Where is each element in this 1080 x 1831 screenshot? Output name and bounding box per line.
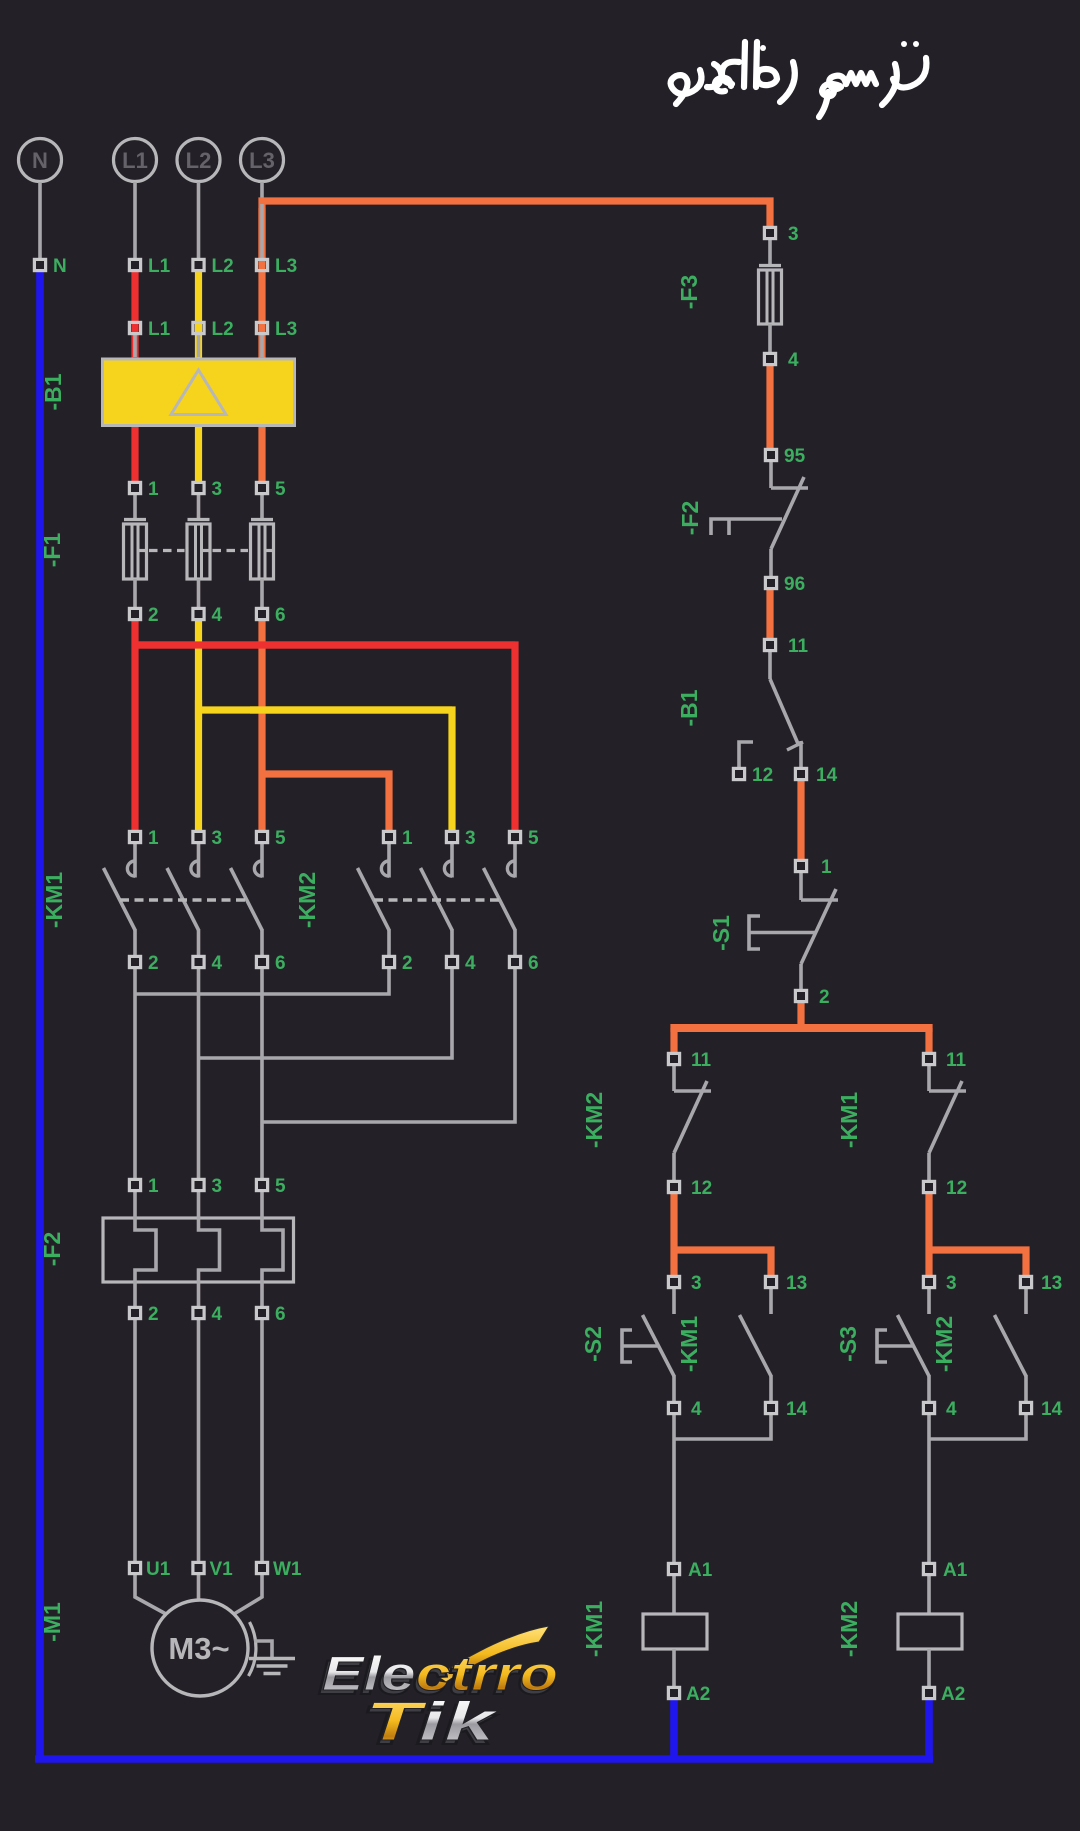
grey overlay on leads entering B1 — [133, 332, 137, 357]
svg-text:3: 3 — [691, 1273, 702, 1294]
fuse F1 pole at x=135 — [133, 495, 137, 519]
contactor KM2 main pole x=515 — [513, 843, 517, 878]
fuse F1 pole at x=198.5 — [197, 495, 201, 519]
svg-text:12: 12 — [752, 765, 773, 786]
auxiliary contact KM1 13-14 — [769, 1289, 773, 1314]
wire: L3 orange drop to B1 — [258, 208, 265, 359]
svg-text:-KM2: -KM2 — [294, 872, 320, 928]
grey overlay on L3 lead below circle — [260, 204, 264, 258]
wire: F2-4 to motor V1 — [197, 1320, 201, 1561]
svg-text:-KM1: -KM1 — [41, 872, 67, 928]
fuse F3 — [759, 264, 781, 267]
svg-text:6: 6 — [275, 953, 286, 974]
svg-text:A2: A2 — [686, 1684, 710, 1705]
svg-text:11: 11 — [788, 636, 809, 657]
breaker auxiliary contact B1 11-14 — [768, 652, 772, 679]
svg-text:5: 5 — [275, 1176, 286, 1197]
wire: orange phase F1-6 down to KM1 pole 5 — [258, 621, 265, 830]
lead from circle L1 — [133, 182, 137, 258]
svg-text:6: 6 — [275, 605, 286, 626]
svg-text:2: 2 — [148, 605, 159, 626]
wire: neutral blue bottom horizontal — [35, 1755, 933, 1763]
svg-text:Tik: Tik — [365, 1690, 499, 1752]
supply circle L3 — [241, 139, 284, 182]
terminal squares control side — [764, 227, 775, 238]
svg-text:4: 4 — [691, 1399, 702, 1420]
svg-text:12: 12 — [946, 1178, 967, 1199]
overload F2 heater element x=198.5 — [199, 1192, 220, 1306]
triangle inside B1 — [171, 370, 226, 415]
svg-text:5: 5 — [275, 828, 286, 849]
wire: orange B1-14 to S1-1 — [797, 781, 804, 859]
svg-text:-KM1: -KM1 — [676, 1316, 702, 1372]
wire: orange S1-2 to branch bus — [797, 1003, 804, 1028]
svg-text:12: 12 — [691, 1178, 712, 1199]
motor ground connection arc — [249, 1622, 256, 1676]
svg-text:-B1: -B1 — [40, 373, 66, 410]
svg-text:2: 2 — [402, 953, 413, 974]
svg-text:3: 3 — [212, 1176, 223, 1197]
svg-text:L2: L2 — [212, 319, 234, 340]
svg-text:13: 13 — [1041, 1273, 1062, 1294]
wire: S3-4 / KM2aux-14 join to coil A1 — [929, 1415, 1026, 1439]
svg-text:A1: A1 — [688, 1560, 713, 1581]
supply circle L1 — [114, 139, 157, 182]
wire: L1 red drop to B1 — [131, 272, 138, 359]
wire: F2-2 to motor U1 — [133, 1320, 137, 1561]
wire: KM1-2 / KM2-2 junction to F2-1 — [133, 969, 137, 1178]
S2 actuator — [622, 1330, 632, 1362]
interlock NC contact KM2 11-12 — [672, 1066, 676, 1091]
svg-text:3: 3 — [212, 479, 223, 500]
svg-text:-F3: -F3 — [676, 275, 702, 310]
svg-text:-KM1: -KM1 — [836, 1092, 862, 1148]
wire: orange bus drop right to KM1-11 — [925, 1028, 932, 1052]
svg-text:3: 3 — [788, 224, 799, 245]
stop pushbutton S1 NC 1-2 — [799, 873, 803, 900]
contactor KM1 main pole x=198.5 — [197, 843, 201, 878]
svg-text:1: 1 — [148, 828, 159, 849]
svg-text:-F2: -F2 — [39, 1232, 65, 1267]
wire: orange KM1-12 to S3/KM2aux split — [925, 1194, 932, 1275]
motor lead W1 — [234, 1575, 262, 1614]
motor lead V1 — [197, 1575, 201, 1600]
wire: red phase F1-2 down to KM1 pole 1 — [131, 621, 138, 830]
svg-text:14: 14 — [816, 765, 838, 786]
ground symbol — [249, 1657, 295, 1661]
contactor KM2 main pole x=452 — [450, 843, 454, 878]
svg-text:N: N — [32, 148, 48, 173]
svg-text:6: 6 — [275, 1304, 286, 1325]
overload F2 heater element x=135 — [135, 1192, 156, 1306]
title: persian text 'tarsim reza ahmadi' — [671, 42, 927, 117]
svg-text:A2: A2 — [941, 1684, 965, 1705]
lead from circle L3 — [260, 182, 264, 258]
svg-text:4: 4 — [212, 605, 223, 626]
wire: KM1-6 / KM2-6 junction to F2-5 — [260, 969, 264, 1178]
wire: KM1-4 / KM2-4 junction to F2-3 — [197, 969, 201, 1178]
contactor KM1 main pole x=135 — [133, 843, 137, 878]
wire: yellow branch to KM2 pole 3 — [199, 710, 453, 830]
svg-text:14: 14 — [1041, 1399, 1063, 1420]
svg-text:-S2: -S2 — [580, 1326, 606, 1362]
svg-text:11: 11 — [691, 1050, 712, 1071]
motor M1 circle — [152, 1600, 248, 1696]
svg-text:-KM2: -KM2 — [836, 1601, 862, 1657]
svg-text:W1: W1 — [273, 1559, 302, 1580]
start pushbutton S2 NO 3-4 — [672, 1289, 676, 1314]
svg-text:95: 95 — [784, 446, 806, 467]
thermal overload relay F2 box — [103, 1218, 294, 1282]
ground wire — [254, 1641, 272, 1657]
svg-text:L1: L1 — [122, 148, 148, 173]
svg-text:L1: L1 — [148, 256, 171, 277]
svg-text:M3~: M3~ — [168, 1631, 229, 1666]
wire: B1 outputs down to F1 — [131, 426, 138, 482]
svg-text:4: 4 — [212, 1304, 223, 1325]
contactor KM1 main pole x=262 — [260, 843, 264, 878]
svg-text:-KM1: -KM1 — [581, 1601, 607, 1657]
svg-text:-KM2: -KM2 — [581, 1092, 607, 1148]
svg-text:13: 13 — [786, 1273, 807, 1294]
svg-text:4: 4 — [465, 953, 476, 974]
svg-text:L1: L1 — [148, 319, 171, 340]
wire: L2 yellow drop to B1 — [195, 272, 202, 359]
wire: F2-6 to motor W1 — [260, 1320, 264, 1561]
terminal squares power side — [34, 259, 45, 270]
svg-text:6: 6 — [528, 953, 539, 974]
overload F2 heater element x=262 — [262, 1192, 283, 1306]
overload F2 trip actuator — [711, 519, 782, 535]
svg-text:-S1: -S1 — [708, 915, 734, 951]
svg-text:2: 2 — [819, 987, 830, 1008]
wire: blue from KM1 coil A2 down — [670, 1700, 678, 1759]
dashed gang link of F1 — [149, 549, 185, 552]
svg-text:4: 4 — [212, 953, 223, 974]
wire: orange F3-4 to F2-95 — [766, 366, 773, 448]
wire: orange control feed from L3 to F3 — [262, 201, 770, 265]
svg-text:1: 1 — [821, 857, 832, 878]
svg-text:3: 3 — [465, 828, 476, 849]
svg-text:4: 4 — [946, 1399, 957, 1420]
fuse F3 lead bottom — [768, 324, 772, 352]
svg-text:96: 96 — [784, 574, 805, 595]
dashed linkage KM1 — [120, 898, 246, 901]
svg-text:14: 14 — [786, 1399, 808, 1420]
svg-text:-B1: -B1 — [676, 689, 702, 726]
S1 actuator — [749, 916, 760, 949]
svg-text:L3: L3 — [275, 256, 297, 277]
dashed linkage KM2 — [374, 898, 500, 901]
lead from circle N — [38, 182, 42, 258]
wire: yellow phase F1-4 down to KM1 pole 3 — [195, 621, 202, 830]
svg-text:4: 4 — [788, 350, 799, 371]
auxiliary contact KM2 13-14 — [1024, 1289, 1028, 1314]
surge protection device B1 yellow box — [103, 359, 295, 426]
S3 actuator — [877, 1330, 887, 1362]
coil KM2 — [927, 1576, 931, 1614]
start pushbutton S3 NO 3-4 — [927, 1289, 931, 1314]
wire: S2-4 / KM1aux-14 join to coil A1 — [674, 1415, 771, 1439]
svg-text:3: 3 — [946, 1273, 957, 1294]
motor lead U1 — [135, 1575, 166, 1614]
svg-text:U1: U1 — [146, 1559, 171, 1580]
svg-text:V1: V1 — [210, 1559, 234, 1580]
lead from circle L2 — [197, 182, 201, 258]
svg-text:1: 1 — [148, 479, 159, 500]
svg-text:1: 1 — [148, 1176, 159, 1197]
svg-text:L2: L2 — [186, 148, 212, 173]
svg-text:-S3: -S3 — [835, 1326, 861, 1362]
wire: orange 96 to B1-11 — [766, 589, 773, 638]
interlock NC contact KM1 11-12 — [927, 1066, 931, 1091]
supply circle L2 — [177, 139, 220, 182]
fuse F1 pole at x=262 — [260, 495, 264, 519]
svg-text:-F1: -F1 — [39, 533, 65, 568]
svg-text:-KM2: -KM2 — [931, 1316, 957, 1372]
svg-text:1: 1 — [402, 828, 413, 849]
coil KM1 — [672, 1576, 676, 1614]
svg-text:-M1: -M1 — [39, 1602, 65, 1642]
svg-text:N: N — [53, 256, 67, 277]
wire: orange branch bus — [670, 1024, 932, 1032]
svg-text:2: 2 — [148, 953, 159, 974]
svg-text:5: 5 — [528, 828, 539, 849]
supply circle N — [19, 139, 62, 182]
svg-text:2: 2 — [148, 1304, 159, 1325]
svg-text:-F2: -F2 — [677, 501, 703, 536]
svg-text:L2: L2 — [212, 256, 234, 277]
wire: neutral N blue, left vertical — [36, 272, 44, 1759]
svg-text:5: 5 — [275, 479, 286, 500]
svg-text:11: 11 — [946, 1050, 967, 1071]
wire: blue from KM2 coil A2 down — [925, 1700, 933, 1759]
overload NC contact F2 95-96 — [769, 462, 773, 488]
contactor KM2 main pole x=389 — [387, 843, 391, 878]
B1 terminal 12 stub — [739, 742, 753, 767]
svg-text:3: 3 — [212, 828, 223, 849]
wire: orange bus drop left to KM2-11 — [670, 1028, 677, 1052]
wire: orange KM2-12 to S2/KM1aux split — [670, 1194, 677, 1275]
svg-text:L3: L3 — [249, 148, 275, 173]
svg-text:L3: L3 — [275, 319, 297, 340]
fuse F3 lead top — [768, 240, 772, 264]
wire: red branch to KM2 pole 5 — [135, 645, 515, 830]
svg-text:A1: A1 — [943, 1560, 968, 1581]
wire: orange branch to KM2 pole 1 — [262, 774, 389, 830]
